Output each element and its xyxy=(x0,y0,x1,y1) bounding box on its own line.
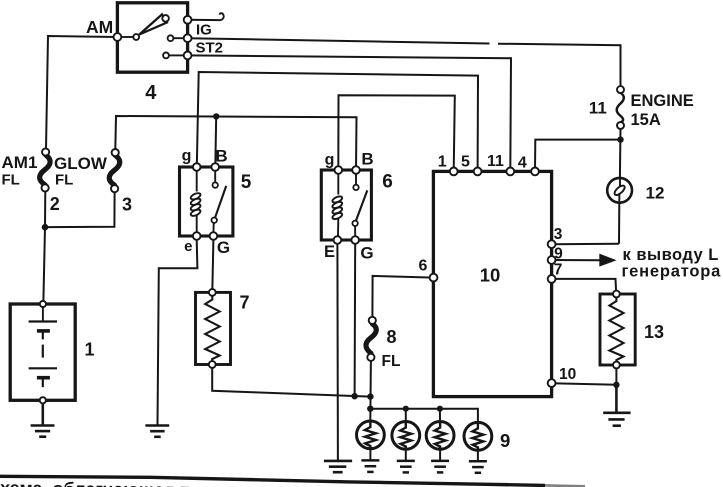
ground glow plug 9d xyxy=(469,461,487,473)
wire resistor 13 bottom to ground junction xyxy=(615,367,617,385)
junction resistor 13 / node 10 / ground xyxy=(613,382,619,388)
relay 6 xyxy=(321,166,371,244)
svg-text:2: 2 xyxy=(50,194,60,214)
wire switch lower contact to box10 pin 11 xyxy=(188,55,511,171)
svg-text:9: 9 xyxy=(500,430,510,451)
junction B-bus / relay5 B xyxy=(213,113,219,119)
svg-text:FL: FL xyxy=(2,172,20,189)
wire AM feed: switch AM terminal to fusible link 2 xyxy=(46,36,117,149)
control unit box 10 xyxy=(430,168,556,397)
wire fusible link 2 to battery junction xyxy=(44,191,46,228)
ground below relay5 e wire xyxy=(145,426,169,437)
fusible link 8 FL xyxy=(366,317,376,361)
resistor 13 xyxy=(600,291,635,369)
wire box10 node 6 to fusible link 8 xyxy=(372,276,433,317)
svg-text:15A: 15A xyxy=(631,111,661,129)
resistor 7 xyxy=(196,289,231,368)
svg-text:g: g xyxy=(182,148,192,165)
ground glow plug 9c xyxy=(431,461,449,473)
wire fusible link 3 to battery junction xyxy=(48,192,115,228)
glow plug 9a xyxy=(357,421,385,460)
svg-text:6: 6 xyxy=(382,172,393,193)
svg-text:11: 11 xyxy=(487,153,504,170)
arrow to generator terminal L xyxy=(599,254,616,267)
glow plug 9d xyxy=(464,422,492,461)
wire glow plug 3 riser xyxy=(439,409,441,422)
wire glow plug 2 riser xyxy=(405,409,407,422)
svg-text:g: g xyxy=(325,152,335,169)
svg-text:1: 1 xyxy=(84,340,94,360)
glow plug 9b xyxy=(392,422,420,461)
svg-text:G: G xyxy=(360,244,373,263)
svg-text:5: 5 xyxy=(461,154,470,171)
wire box10 node 10 to ground junction xyxy=(552,383,617,385)
svg-text:12: 12 xyxy=(646,183,665,202)
fusible link 3 GLOW FL xyxy=(109,149,120,192)
ignition switch 4 xyxy=(114,3,192,72)
svg-text:13: 13 xyxy=(644,322,664,342)
junction relay6 G wire on bus xyxy=(351,393,357,399)
wire fusible link 8 to bus junctions and glow plug 1 xyxy=(369,361,372,422)
bottom frame line xyxy=(0,476,545,485)
wire lamp 12 bottom to node 3 wire xyxy=(618,203,620,244)
svg-text:6: 6 xyxy=(419,257,428,274)
wire box10 node 7 to resistor 13 xyxy=(552,279,617,292)
svg-text:1: 1 xyxy=(438,153,447,170)
wire relay6 G down to bus xyxy=(354,240,357,396)
junction battery feed node xyxy=(42,224,49,231)
wire box10 node 9 to generator arrow xyxy=(552,259,600,261)
ground below resistor 13 xyxy=(603,385,630,426)
lamp 12 xyxy=(607,178,632,203)
junction FL8 / glow plug bus xyxy=(367,406,373,412)
svg-text:B: B xyxy=(215,147,227,166)
svg-text:FL: FL xyxy=(382,353,401,370)
svg-text:7: 7 xyxy=(239,293,249,313)
svg-text:к выводу L: к выводу L xyxy=(623,246,719,264)
svg-text:ENGINE: ENGINE xyxy=(631,92,694,110)
svg-text:8: 8 xyxy=(386,327,396,347)
svg-text:AM1: AM1 xyxy=(2,153,38,172)
wire glow plug bus xyxy=(370,409,478,423)
fuse 11 ENGINE 15A xyxy=(617,86,624,129)
svg-text:генератора: генератора xyxy=(622,263,722,281)
glow plug 9c xyxy=(426,422,454,461)
svg-text:IG: IG xyxy=(196,22,212,39)
junction FL8 / relay bus xyxy=(367,393,373,399)
fusible link 2 AM1 FL xyxy=(40,148,51,191)
ground glow plug 9b xyxy=(397,461,415,473)
svg-text:G: G xyxy=(217,238,230,257)
svg-text:GLOW: GLOW xyxy=(54,154,108,173)
junction glow plug 2 riser xyxy=(403,406,409,412)
wire B bus: fusible link 3 to relay5 B and relay6 B xyxy=(115,116,356,170)
wire relay5 g to box10 pin 5 xyxy=(197,72,478,171)
svg-text:E: E xyxy=(324,243,335,261)
wire relay6 E down to ground xyxy=(336,240,339,461)
svg-text:4: 4 xyxy=(518,154,527,171)
svg-text:AM: AM xyxy=(86,17,113,37)
svg-text:10: 10 xyxy=(480,265,501,286)
svg-text:5: 5 xyxy=(241,172,252,193)
wire box10 pin 4 to fuse-lamp junction xyxy=(535,140,621,172)
junction glow plug 3 riser xyxy=(437,406,443,412)
wire junction to battery positive xyxy=(43,227,45,301)
wire IG stub with open-end hook xyxy=(188,13,224,20)
svg-text:4: 4 xyxy=(145,82,157,104)
svg-text:3: 3 xyxy=(554,226,563,243)
svg-text:9: 9 xyxy=(554,246,563,263)
wire relay5 G to resistor 7 xyxy=(212,240,213,292)
wire fuse 11 bottom to lamp 12 xyxy=(619,128,622,178)
relay 5 xyxy=(180,163,233,240)
wire resistor 7 bottom bus to FL8 junction xyxy=(212,366,370,397)
svg-text:ST2: ST2 xyxy=(196,40,224,57)
ground below relay 6 E xyxy=(324,461,352,472)
svg-text:FL: FL xyxy=(55,172,73,189)
wire ST2 net: switch to ENGINE fuse 11 (with scan gap) xyxy=(188,38,621,89)
junction fuse 11 / lamp 12 / pin 4 xyxy=(617,136,623,142)
wire relay6 g to box10 pin 1 xyxy=(338,95,455,171)
ground glow plug 9a xyxy=(361,460,379,472)
svg-text:7: 7 xyxy=(554,262,563,279)
svg-text:B: B xyxy=(361,150,373,169)
wire box10 node 3 to lamp 12 xyxy=(552,243,619,245)
ground below battery xyxy=(31,403,55,436)
wire relay5 e to left ground xyxy=(158,240,198,425)
svg-text:10: 10 xyxy=(559,366,576,383)
svg-text:11: 11 xyxy=(589,99,607,118)
battery 1 xyxy=(10,301,75,404)
svg-text:e: e xyxy=(184,238,192,255)
wire B-bus drop to relay5 B xyxy=(214,116,217,167)
svg-text:3: 3 xyxy=(122,195,132,215)
